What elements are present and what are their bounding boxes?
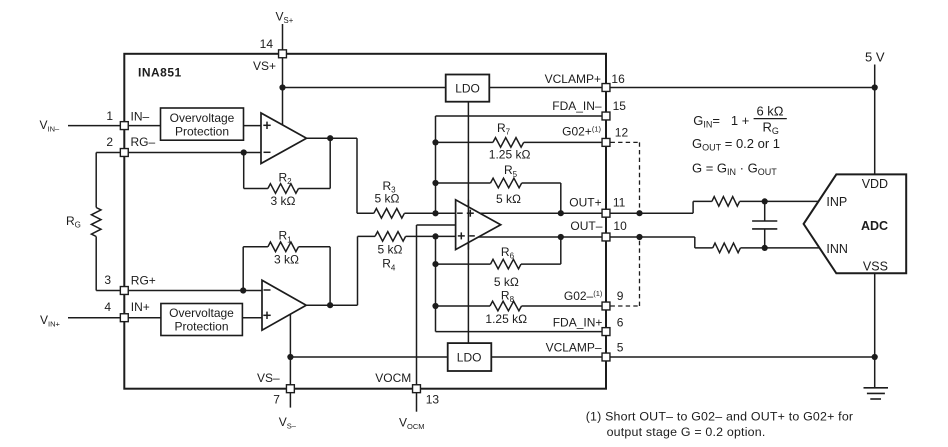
svg-text:12: 12 — [615, 125, 629, 139]
svg-text:ADC: ADC — [861, 219, 888, 233]
svg-text:Protection: Protection — [175, 124, 229, 138]
svg-text:Overvoltage: Overvoltage — [169, 306, 234, 320]
svg-text:1.25 kΩ: 1.25 kΩ — [489, 148, 531, 162]
svg-text:6: 6 — [617, 315, 624, 329]
svg-text:IN+: IN+ — [131, 300, 150, 314]
svg-text:16: 16 — [611, 72, 625, 86]
svg-text:VS–: VS– — [257, 371, 280, 385]
svg-text:13: 13 — [426, 393, 440, 407]
svg-text:output stage G = 0.2 option.: output stage G = 0.2 option. — [607, 425, 766, 439]
svg-text:3 kΩ: 3 kΩ — [274, 253, 299, 267]
svg-text:(1) Short OUT– to G02– and OUT: (1) Short OUT– to G02– and OUT+ to G02+ … — [586, 410, 854, 424]
svg-text:1 +: 1 + — [731, 113, 749, 128]
svg-text:7: 7 — [273, 393, 280, 407]
svg-text:5 kΩ: 5 kΩ — [378, 243, 403, 257]
svg-text:LDO: LDO — [457, 351, 482, 365]
svg-text:14: 14 — [260, 37, 274, 51]
svg-text:3: 3 — [104, 273, 111, 287]
svg-text:9: 9 — [617, 289, 624, 303]
svg-text:VOCM: VOCM — [375, 371, 411, 385]
svg-text:RG+: RG+ — [131, 274, 156, 288]
svg-text:VCLAMP+: VCLAMP+ — [545, 72, 601, 86]
svg-text:3 kΩ: 3 kΩ — [271, 194, 296, 208]
svg-text:6 kΩ: 6 kΩ — [756, 103, 783, 118]
svg-text:VCLAMP–: VCLAMP– — [546, 341, 602, 355]
svg-text:10: 10 — [613, 219, 627, 233]
svg-text:2: 2 — [106, 135, 113, 149]
svg-text:INP: INP — [826, 195, 847, 209]
svg-text:5 kΩ: 5 kΩ — [494, 275, 519, 289]
svg-text:OUT–: OUT– — [570, 219, 602, 233]
svg-text:FDA_IN+: FDA_IN+ — [553, 315, 603, 329]
svg-text:1.25 kΩ: 1.25 kΩ — [485, 312, 527, 326]
svg-text:15: 15 — [613, 99, 627, 113]
svg-text:4: 4 — [104, 300, 111, 314]
svg-text:5 kΩ: 5 kΩ — [375, 191, 400, 205]
svg-text:5 kΩ: 5 kΩ — [496, 192, 521, 206]
svg-text:VDD: VDD — [862, 177, 888, 191]
svg-text:1: 1 — [106, 109, 113, 123]
svg-text:IN–: IN– — [131, 110, 150, 124]
svg-text:RG–: RG– — [131, 135, 156, 149]
svg-text:Overvoltage: Overvoltage — [170, 111, 235, 125]
svg-text:VS+: VS+ — [253, 59, 276, 73]
svg-text:5: 5 — [617, 341, 624, 355]
svg-text:INA851: INA851 — [138, 66, 182, 80]
svg-text:OUT+: OUT+ — [569, 195, 601, 209]
svg-text:11: 11 — [613, 195, 626, 209]
svg-text:LDO: LDO — [455, 81, 480, 95]
svg-text:5 V: 5 V — [865, 50, 885, 65]
svg-text:INN: INN — [826, 242, 848, 256]
svg-text:FDA_IN–: FDA_IN– — [552, 99, 602, 113]
svg-text:Protection: Protection — [174, 320, 228, 334]
svg-text:VSS: VSS — [863, 260, 888, 274]
